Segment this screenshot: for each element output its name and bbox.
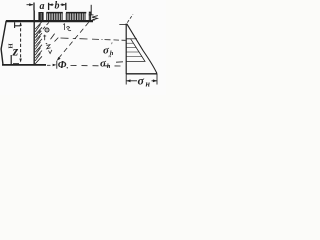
node top tick	[119, 23, 126, 25]
pressure diagram vertical edge	[125, 24, 127, 74]
node base dim tick left	[125, 74, 127, 85]
wire dimension b arrow left	[49, 4, 54, 6]
node mark near wall top	[15, 22, 20, 28]
wire dashed level line phi	[47, 64, 51, 66]
svg-text:h: h	[107, 63, 111, 70]
svg-text:a: a	[40, 1, 45, 12]
wire dashes to diagram	[71, 65, 121, 68]
wire dimension b arrow right	[61, 4, 66, 6]
node tick at b right	[65, 3, 67, 10]
svg-text:Φ: Φ	[58, 59, 67, 71]
node small t mark	[43, 35, 46, 40]
svg-text:σ: σ	[138, 73, 145, 87]
wire dashed slope continuation	[127, 14, 133, 22]
svg-text:b: b	[55, 1, 60, 12]
wire z depth dashed line	[20, 23, 22, 62]
strip load hatched block left	[38, 12, 43, 21]
strip load hatch stripes	[47, 13, 91, 21]
wire dash-dot level line z1	[55, 38, 59, 42]
wire dashed influence line 2	[58, 22, 89, 59]
node marker line at strip right end	[90, 5, 92, 15]
wall back face	[33, 11, 35, 65]
wire leader to quad	[116, 61, 123, 63]
wire dashed influence line 1	[36, 23, 49, 38]
svg-text:н: н	[146, 80, 151, 89]
wall left battered face	[1, 21, 6, 65]
ground surface line	[6, 20, 93, 22]
wall toe vertical line	[10, 55, 12, 65]
wire dimension a arrow left	[27, 4, 34, 6]
paper background	[0, 0, 166, 95]
wire sigma-n dimension arrows	[127, 80, 137, 82]
svg-text:′: ′	[111, 42, 113, 50]
node tick at wall back top	[33, 3, 35, 11]
node tick before phi	[56, 61, 58, 69]
label theta small circle	[45, 28, 49, 32]
pressure diagram hypotenuse	[127, 24, 157, 74]
svg-text:z: z	[12, 45, 19, 60]
label 1/e tiny	[63, 24, 71, 31]
node base dim tick right	[156, 74, 158, 85]
pressure diagram base	[126, 73, 157, 75]
quad hatch lines	[126, 43, 141, 56]
surcharge pressure quad	[126, 39, 145, 62]
label z2 tiny	[47, 45, 52, 54]
strip load top edge	[46, 11, 91, 13]
node tick between a and b	[48, 3, 50, 10]
wire z-squiggle arrow	[91, 16, 98, 21]
wall base line	[2, 64, 46, 66]
soil hatch behind wall	[35, 22, 42, 64]
svg-text:″: ″	[108, 55, 112, 63]
